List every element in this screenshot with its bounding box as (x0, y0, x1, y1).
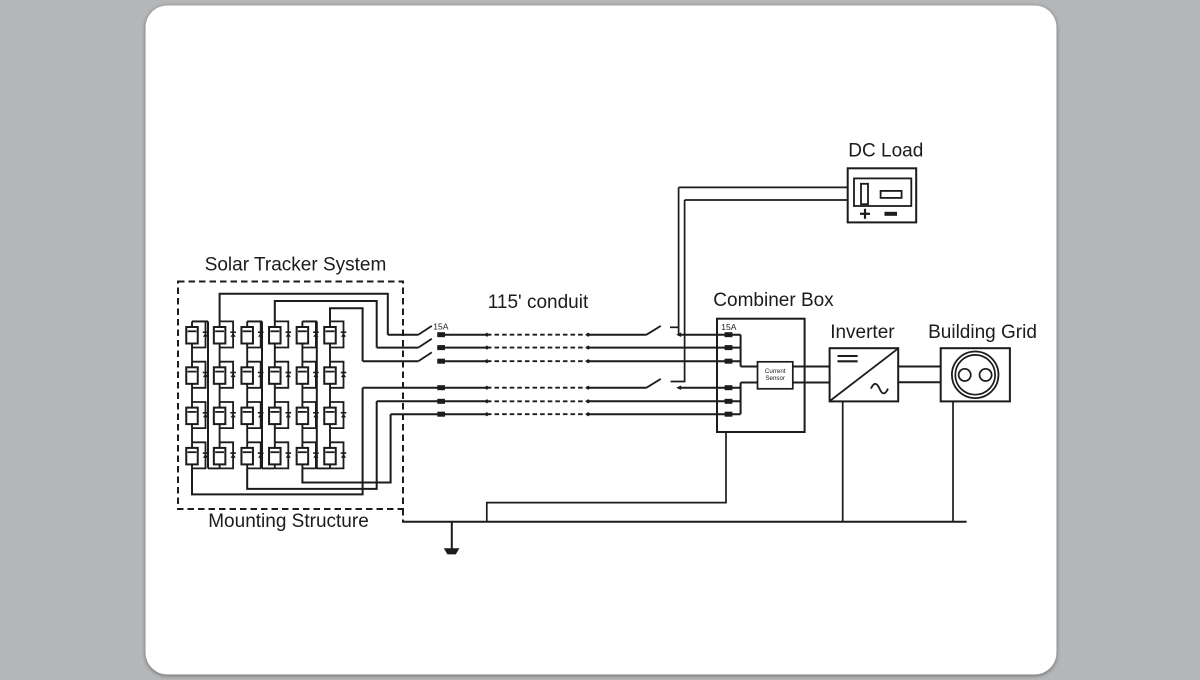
svg-text:Sensor: Sensor (765, 375, 785, 382)
svg-text:Mounting Structure: Mounting Structure (208, 511, 369, 532)
svg-text:15A: 15A (433, 321, 448, 331)
svg-text:115' conduit: 115' conduit (488, 292, 589, 313)
svg-text:15A: 15A (721, 322, 736, 332)
svg-text:DC Load: DC Load (848, 141, 923, 162)
svg-text:Inverter: Inverter (830, 322, 895, 343)
svg-text:Building Grid: Building Grid (928, 322, 1037, 343)
svg-text:Current: Current (765, 368, 786, 375)
svg-text:Combiner Box: Combiner Box (713, 290, 834, 311)
svg-text:Solar Tracker System: Solar Tracker System (205, 254, 387, 275)
